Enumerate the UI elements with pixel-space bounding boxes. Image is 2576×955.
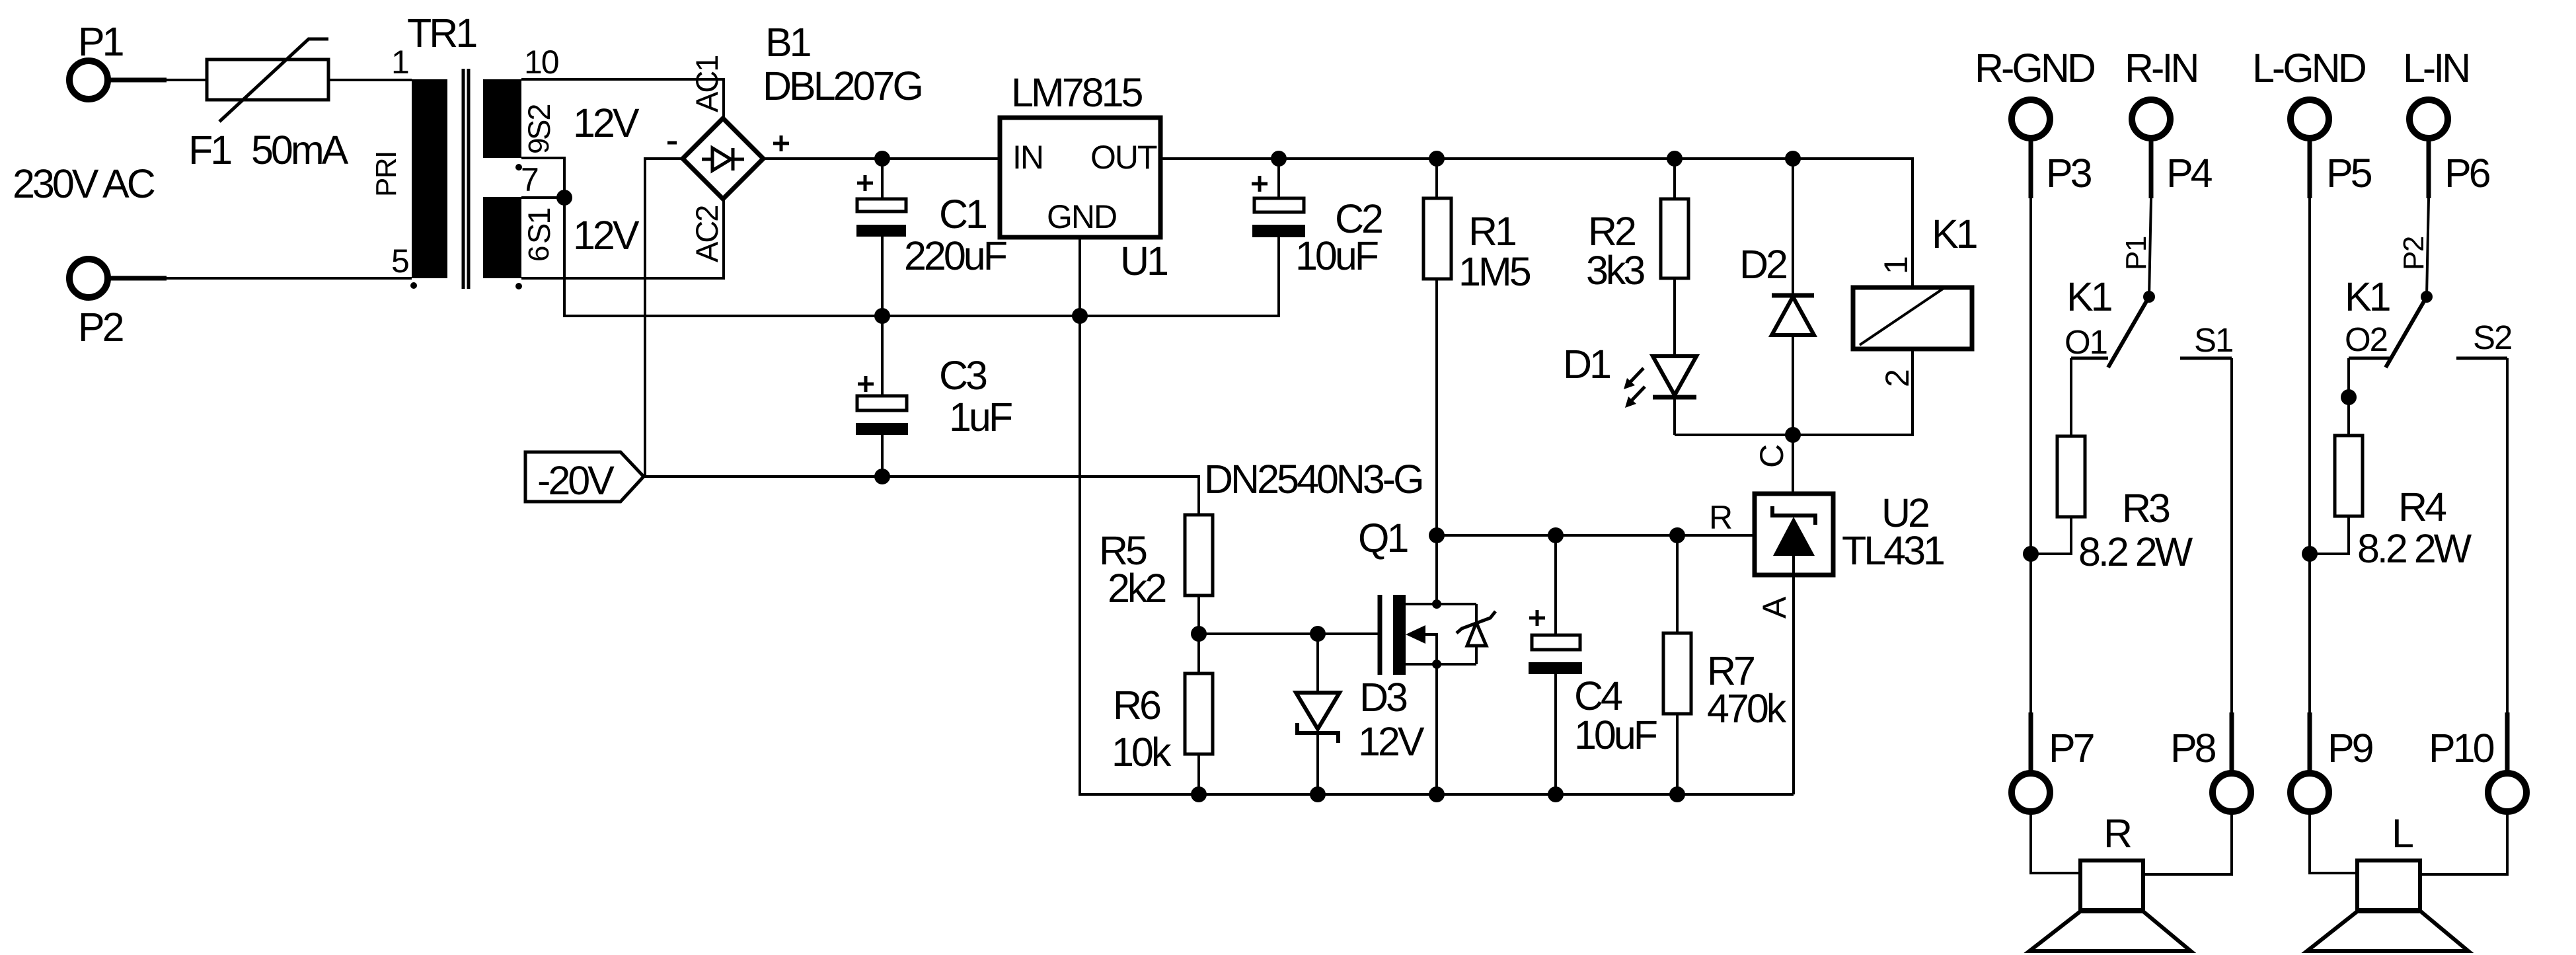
junction ref wire at R7 [1669, 527, 1685, 543]
svg-text:O2: O2 [2345, 321, 2387, 358]
svg-text:8.2 2W: 8.2 2W [2357, 526, 2472, 571]
wire P4 to switch pivot [2149, 198, 2151, 297]
svg-text:D2: D2 [1739, 242, 1786, 287]
svg-text:C3: C3 [939, 353, 987, 398]
svg-text:R3: R3 [2122, 486, 2170, 531]
svg-text:Q1: Q1 [1358, 516, 1407, 560]
svg-text:DBL207G: DBL207G [763, 63, 921, 108]
svg-text:L-IN: L-IN [2403, 46, 2468, 91]
svg-text:C4: C4 [1574, 673, 1622, 718]
junction +15V rail at D2 [1785, 151, 1801, 167]
svg-text:12V: 12V [1358, 719, 1425, 764]
junction center tap [556, 190, 572, 206]
svg-text:P1: P1 [78, 19, 123, 64]
svg-text:TL431: TL431 [1842, 528, 1944, 573]
svg-text:LM7815: LM7815 [1011, 70, 1143, 115]
svg-text:12V: 12V [573, 100, 640, 145]
LED D1 [1563, 342, 1696, 435]
wire O2 to R4 [2347, 358, 2350, 436]
fuse F1 [188, 39, 349, 172]
svg-text:1: 1 [391, 44, 408, 81]
svg-text:R: R [1709, 499, 1731, 536]
svg-text:S1: S1 [2194, 321, 2232, 359]
svg-text:R2: R2 [1588, 209, 1635, 254]
svg-text:OUT: OUT [1090, 139, 1157, 176]
svg-text:C1: C1 [939, 192, 986, 237]
svg-text:IN: IN [1012, 139, 1043, 176]
svg-text:D3: D3 [1359, 675, 1407, 720]
svg-text:U1: U1 [1120, 239, 1167, 284]
connector pin P10 [2429, 712, 2526, 812]
svg-text:P2: P2 [78, 305, 123, 350]
wire R4 to P5 wire [2310, 516, 2349, 554]
svg-text:F1: F1 [188, 128, 231, 172]
junction bottom rail at R7 [1669, 786, 1685, 802]
wire P8 to speaker R [2143, 814, 2232, 874]
svg-text:6: 6 [523, 247, 555, 262]
svg-text:10uF: 10uF [1295, 233, 1378, 278]
svg-text:220uF: 220uF [904, 233, 1006, 278]
svg-text:10uF: 10uF [1574, 712, 1657, 757]
svg-text:P3: P3 [2046, 151, 2092, 196]
connector pin P1 [69, 19, 167, 99]
svg-text:1M5: 1M5 [1458, 249, 1531, 294]
wire bridge minus to -20V rail [645, 159, 683, 477]
relay coil K1 [1853, 211, 1977, 387]
junction +15V rail at R1 [1429, 151, 1445, 167]
svg-text:P7: P7 [2049, 726, 2094, 771]
wire P2 to TR1 pin 5 [167, 277, 412, 280]
capacitor C2 [1252, 159, 1382, 278]
junction ref wire at C4 [1548, 527, 1564, 543]
svg-text:470k: 470k [1707, 686, 1787, 731]
svg-text:P4: P4 [2166, 151, 2213, 196]
wire O1 to R3 [2070, 358, 2072, 436]
connector pin P4 [2132, 100, 2213, 198]
svg-text:C: C [1753, 445, 1790, 468]
svg-text:-20V: -20V [537, 458, 615, 503]
wire R1 to Q1 drain [1435, 279, 1438, 604]
speaker L [2307, 811, 2468, 951]
junction bottom rail at D3 [1310, 786, 1326, 802]
diode D2 [1739, 159, 1814, 435]
resistor R1 [1423, 159, 1531, 294]
capacitor C4 [1529, 535, 1657, 794]
connector pin P7 [2012, 712, 2094, 812]
svg-text:A: A [1756, 596, 1793, 619]
svg-text:AC1: AC1 [689, 56, 724, 112]
junction GND bus at C1 [874, 308, 890, 324]
resistor R4 [2335, 436, 2472, 571]
wire P1 to fuse [167, 79, 207, 81]
wire center tap to GND bus [564, 198, 1279, 316]
zener diode D3 [1296, 634, 1425, 794]
svg-text:D1: D1 [1563, 342, 1610, 387]
junction bottom rail at Q1 source [1429, 786, 1445, 802]
wire TR1 pin 7 to center tap [521, 196, 564, 199]
svg-text:B1: B1 [765, 20, 810, 65]
junction gate node at R5 [1191, 626, 1207, 642]
connector pin P6 [2409, 100, 2490, 198]
svg-text:230V AC: 230V AC [13, 161, 155, 206]
svg-text:L-GND: L-GND [2252, 46, 2366, 91]
speaker R [2029, 811, 2191, 951]
svg-text:S1: S1 [521, 209, 556, 245]
svg-text:10: 10 [524, 44, 558, 81]
svg-text:3k3: 3k3 [1586, 248, 1644, 293]
junction bottom rail at R6 [1191, 786, 1207, 802]
wire TR1 pin 10 to bridge AC1 [521, 79, 724, 118]
connector pin P8 [2170, 712, 2251, 812]
resistor R3 [2057, 436, 2193, 574]
svg-text:DN2540N3-G: DN2540N3-G [1204, 457, 1422, 502]
wire S2 to P10 [2506, 358, 2509, 712]
svg-text:7: 7 [521, 161, 538, 198]
junction R4 return on P5 wire [2302, 546, 2318, 562]
wire gate node to Q1 gate [1199, 632, 1378, 635]
junction +15V rail at R2 [1667, 151, 1683, 167]
relay contact K1 P2 [2345, 237, 2511, 367]
svg-text:K1: K1 [2345, 274, 2390, 319]
svg-text:50mA: 50mA [251, 128, 349, 172]
relay contact K1 P1 [2065, 237, 2232, 367]
connector pin P9 [2291, 712, 2373, 812]
wire TR1 pin 6 to bridge AC2 [521, 199, 724, 278]
svg-text:O1: O1 [2065, 323, 2107, 361]
wire S1 to P8 [2230, 358, 2233, 712]
svg-text:1: 1 [1877, 257, 1914, 274]
svg-text:10k: 10k [1112, 730, 1172, 775]
wire P7 to speaker R [2031, 814, 2080, 873]
svg-text:PRI: PRI [370, 151, 402, 197]
svg-text:AC2: AC2 [689, 206, 724, 262]
wire U1 GND to bus [1079, 237, 1081, 316]
svg-text:P5: P5 [2326, 151, 2372, 196]
power flag -20V [525, 452, 644, 503]
svg-text:1uF: 1uF [949, 395, 1012, 439]
wire P9 to speaker L [2310, 814, 2357, 873]
svg-text:GND: GND [1047, 198, 1116, 235]
wire P5 down [2308, 198, 2311, 712]
svg-text:R: R [2103, 811, 2131, 856]
svg-text:K1: K1 [2066, 274, 2111, 319]
wire Q1 source to bottom rail [1435, 664, 1438, 794]
wire D1 to K1 pin 2 [1675, 349, 1913, 435]
wire fuse to TR1 pin 1 [328, 79, 412, 81]
svg-text:P2: P2 [2398, 237, 2430, 270]
svg-text:R4: R4 [2398, 484, 2446, 529]
wire R6 to bottom rail [1197, 754, 1200, 794]
junction on O2 wire [2341, 389, 2357, 405]
wire ref node to U2 R input [1437, 534, 1755, 537]
wire P6 to switch pivot [2427, 198, 2429, 297]
junction C1 top [874, 151, 890, 167]
wire +15V rail U1 OUT to relay K1 [1160, 159, 1913, 287]
svg-text:P6: P6 [2444, 151, 2490, 196]
connector pin P5 [2291, 100, 2372, 198]
svg-text:K1: K1 [1932, 211, 1977, 256]
junction ref node on drain wire [1429, 527, 1445, 543]
svg-text:S2: S2 [521, 105, 556, 141]
svg-text:P1: P1 [2120, 237, 2152, 270]
svg-text:12V: 12V [573, 213, 640, 258]
resistor R5 [1099, 515, 1213, 611]
svg-text:R6: R6 [1113, 683, 1160, 728]
wire R3 to P3 wire [2031, 517, 2071, 554]
capacitor C1 [856, 159, 1006, 316]
wire GND drop and bottom rail [1080, 316, 1794, 794]
svg-text:P8: P8 [2170, 726, 2216, 771]
svg-text:2: 2 [1879, 370, 1916, 387]
resistor R2 [1586, 159, 1688, 356]
svg-text:8.2 2W: 8.2 2W [2078, 529, 2193, 574]
transistor Q1 [1358, 516, 1496, 675]
svg-text:P9: P9 [2328, 726, 2373, 771]
svg-text:P10: P10 [2429, 726, 2494, 771]
junction GND bus at U1 [1072, 308, 1088, 324]
wire TR1 pin 9 to center tap [521, 158, 564, 198]
junction at D2 anode [1785, 427, 1801, 443]
bridge rectifier B1 [667, 20, 921, 262]
resistor R6 [1112, 673, 1213, 775]
svg-text:S2: S2 [2473, 319, 2511, 356]
svg-text:9: 9 [523, 139, 555, 154]
svg-text:R-GND: R-GND [1975, 46, 2095, 91]
svg-text:2k2: 2k2 [1108, 566, 1165, 611]
svg-text:TR1: TR1 [407, 11, 476, 56]
resistor R7 [1663, 535, 1787, 794]
junction gate node at D3 [1310, 626, 1326, 642]
wire -20V rail [644, 477, 1199, 515]
svg-text:R1: R1 [1468, 209, 1515, 254]
junction C2 top [1271, 151, 1287, 167]
wire P3 down [2029, 198, 2032, 712]
wire P10 to speaker L [2421, 814, 2507, 874]
shunt regulator U2 TL431 [1709, 435, 1944, 794]
svg-text:L: L [2392, 811, 2413, 856]
wire bridge plus to U1 IN [763, 157, 1000, 160]
wire R5 to gate node [1197, 595, 1200, 673]
svg-text:5: 5 [391, 243, 408, 280]
regulator U1 LM7815 [1000, 70, 1167, 284]
connector pin P2 [69, 259, 167, 350]
junction -20V rail at C3 [874, 469, 890, 484]
transformer TR1 [370, 11, 558, 289]
svg-text:R-IN: R-IN [2125, 46, 2197, 91]
junction bottom rail at C4 [1548, 786, 1564, 802]
capacitor C3 [856, 316, 1012, 477]
junction R3 return on P3 wire [2023, 546, 2039, 562]
connector pin P3 [2012, 100, 2092, 198]
